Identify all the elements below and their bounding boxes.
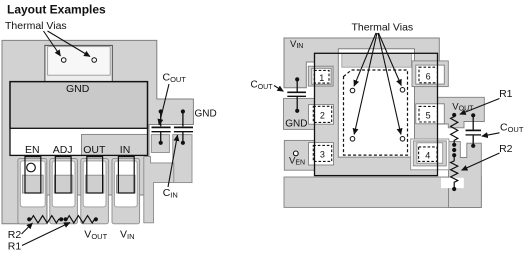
resistor zigzag R1 (66, 216, 96, 223)
white notch in bottom bar (441, 178, 464, 188)
pad 6 white (416, 65, 445, 84)
package body white lower part (10, 82, 148, 156)
svg-text:R2: R2 (499, 143, 513, 155)
svg-text:GND: GND (195, 109, 217, 120)
bottom dot (295, 109, 299, 113)
thermal via 2 (92, 58, 97, 63)
EN pad copper (22, 175, 43, 193)
pad 6 dashed (419, 67, 437, 83)
EN pin lead (25, 157, 41, 193)
bottom lead (472, 135, 474, 146)
resistor divider zigzag R2 (29, 216, 60, 223)
GND copper block (left-mid) (284, 98, 342, 129)
COUT lower pad box (151, 135, 169, 153)
svg-text:Layout Examples: Layout Examples (7, 3, 106, 17)
svg-text:Thermal Vias: Thermal Vias (352, 22, 414, 34)
arrow R2 right (462, 153, 500, 170)
EN copper box (VEN + pad3) (284, 140, 341, 170)
svg-text:R2: R2 (8, 229, 22, 241)
VOUT copper region (right) (412, 97, 484, 128)
arrow to via 1 (44, 31, 61, 56)
pad 2 dashed (313, 106, 331, 122)
IN pad copper (117, 175, 136, 193)
capacitor COUT (right side): top dot (471, 113, 475, 117)
ADJ pad white (52, 161, 75, 207)
arrows to 4 vias (354, 33, 376, 86)
svg-text:VIN: VIN (120, 229, 135, 242)
pad 1 dashed (314, 70, 329, 83)
bottom lead (296, 96, 298, 111)
IN pin lead (118, 157, 134, 193)
FB copper block (right, around pad4/R2 junction) (449, 142, 482, 208)
capacitor CIN symbol: top lead (182, 112, 184, 127)
package outline (10, 82, 148, 156)
CIN bottom via dot (181, 141, 185, 145)
pin1 marker circle (27, 163, 36, 172)
svg-text:3: 3 (320, 149, 325, 159)
capacitor COUT symbol: top lead (160, 112, 162, 127)
svg-text:COUT: COUT (251, 80, 274, 92)
bottom GND bar (284, 177, 481, 207)
arrow CIN to cap (168, 135, 178, 187)
ADJ pad copper (54, 175, 73, 193)
ADJ pad ring (50, 159, 78, 224)
CIN top via dot (181, 109, 185, 113)
svg-text:CIN: CIN (163, 187, 178, 200)
svg-text:Thermal Vias: Thermal Vias (5, 20, 67, 32)
pad 1 white (312, 68, 331, 84)
pad 3 dashed (313, 145, 331, 161)
top lead (296, 79, 298, 91)
svg-text:EN: EN (25, 144, 40, 156)
thermal via 1 (61, 58, 66, 63)
OUT pin lead (87, 157, 103, 193)
IN pad ring (112, 159, 140, 224)
svg-text:IN: IN (120, 144, 131, 156)
pad 2 white (309, 105, 334, 125)
resistor R1 (vertical zigzag) (451, 115, 458, 143)
bottom dot (471, 144, 475, 148)
EN pad ring (18, 159, 47, 224)
node dot left (27, 217, 31, 221)
arrow R1 (22, 223, 70, 246)
svg-text:R1: R1 (499, 88, 513, 100)
svg-text:COUT: COUT (500, 122, 524, 135)
package outline (right layout) (315, 53, 438, 175)
svg-text:4: 4 (425, 151, 430, 161)
svg-text:1: 1 (319, 73, 324, 83)
VEN circle (293, 151, 298, 156)
svg-text:VOUT: VOUT (84, 229, 107, 242)
thermal via circles (350, 88, 355, 93)
thermal pad white region (338, 49, 414, 157)
IN pad white (114, 161, 137, 207)
thermal pad dashed outline with chamfer (344, 70, 408, 155)
pad 5 dashed (419, 106, 437, 122)
pad 4 ring (413, 141, 446, 166)
CIN pad tall box (173, 135, 192, 183)
pad 3 white (309, 143, 334, 165)
thermal pad inner rect (48, 47, 111, 76)
EN pad white (20, 161, 45, 207)
svg-text:R1: R1 (8, 241, 22, 253)
OUT pad copper (85, 175, 104, 193)
OUT/IN copper box behind labels (82, 134, 148, 155)
arrow R1 (460, 99, 500, 115)
capacitor COUT (right layout): top dot (295, 77, 299, 81)
arrow to via 2 (48, 31, 91, 57)
pad ring 1 (308, 66, 333, 86)
top lead (472, 115, 474, 130)
COUT plates (152, 126, 171, 128)
GND tab of package (10, 82, 148, 129)
svg-text:OUT: OUT (83, 144, 106, 156)
GND copper pour (left) (2, 40, 193, 223)
OUT pad ring (81, 159, 109, 224)
svg-text:6: 6 (426, 71, 431, 81)
plates (287, 91, 306, 93)
arrow COUT to cap (159, 84, 169, 125)
CIN plates (174, 126, 193, 128)
VOUT node dot (452, 113, 456, 117)
thermal pad opening box (45, 45, 112, 81)
svg-text:ADJ: ADJ (53, 144, 73, 156)
pad 4 white (417, 143, 443, 163)
R2 bottom dot (452, 187, 456, 191)
COUT bottom lead (160, 132, 162, 143)
COUT bottom via dot (159, 141, 163, 145)
resistor R2 (vertical zigzag) (451, 155, 458, 189)
OUT pad white (83, 161, 106, 207)
arrow COUT (274, 86, 283, 92)
pad ring 6 (412, 61, 448, 87)
svg-text:COUT: COUT (163, 72, 187, 85)
CIN bottom lead (182, 132, 184, 143)
pad 4 dashed (419, 147, 437, 162)
svg-text:5: 5 (426, 111, 431, 121)
node dots middle (59, 217, 63, 221)
svg-text:GND: GND (285, 118, 307, 129)
pad 5 white (416, 104, 445, 124)
arrow R2 (22, 223, 33, 234)
VIN copper pour (right layout) (284, 38, 439, 88)
pour band inside package top (342, 53, 412, 67)
node dot right (94, 217, 98, 221)
svg-text:2: 2 (320, 110, 325, 120)
COUT top via dot (159, 109, 163, 113)
arrow COUT right (482, 133, 500, 136)
plates (466, 129, 482, 131)
ADJ pin lead (55, 157, 71, 193)
package interior (right layout) (315, 53, 438, 175)
IN net connector block (144, 157, 174, 223)
node dots between R1/R2 (452, 143, 456, 147)
svg-text:GND: GND (66, 83, 90, 95)
pad 4 outer white (411, 139, 449, 170)
